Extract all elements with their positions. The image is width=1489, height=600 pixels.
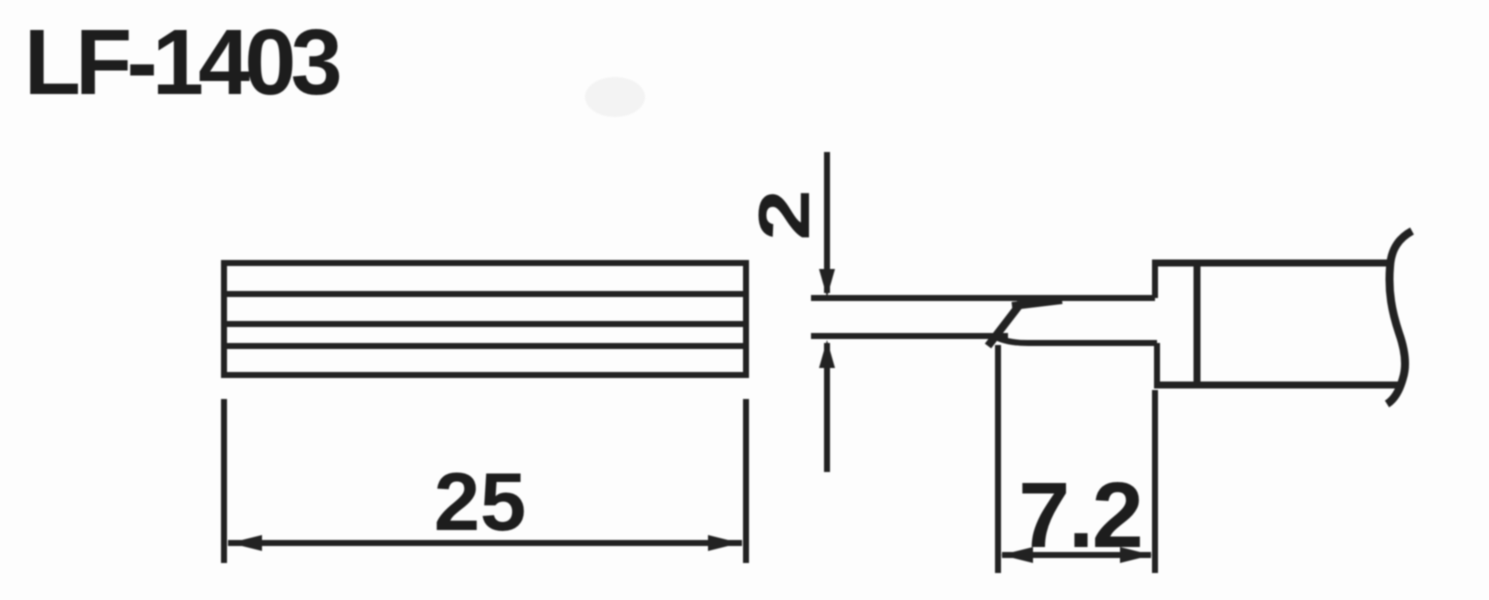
svg-text:2: 2	[744, 189, 825, 240]
svg-text:25: 25	[434, 455, 526, 548]
svg-text:7.2: 7.2	[1018, 463, 1141, 567]
svg-text:LF-1403: LF-1403	[24, 10, 340, 114]
